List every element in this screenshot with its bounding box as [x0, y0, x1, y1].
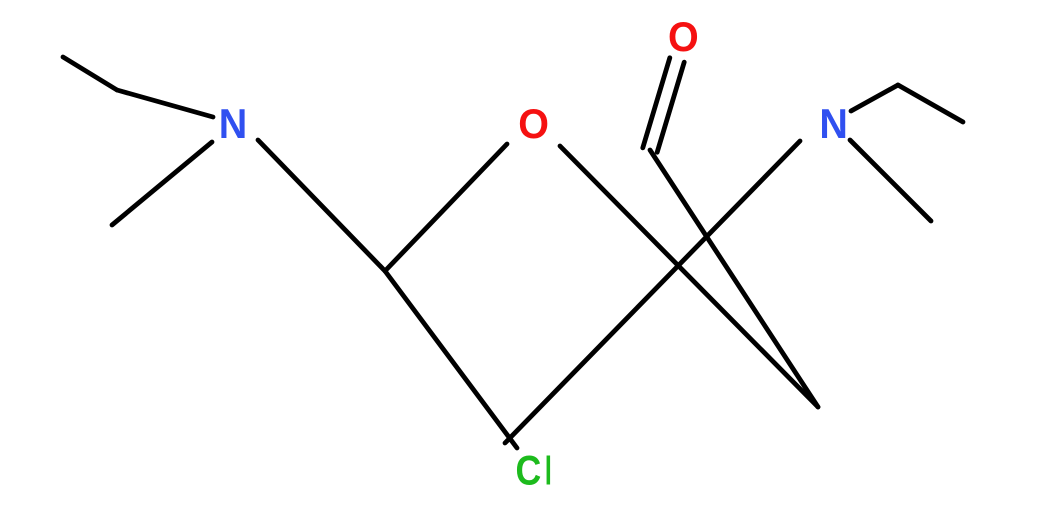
svg-text:N: N [219, 100, 248, 147]
svg-text:l: l [544, 450, 553, 494]
svg-text:N: N [819, 100, 848, 147]
svg-text:O: O [518, 100, 549, 147]
svg-text:O: O [668, 13, 699, 60]
svg-text:C: C [515, 448, 541, 494]
